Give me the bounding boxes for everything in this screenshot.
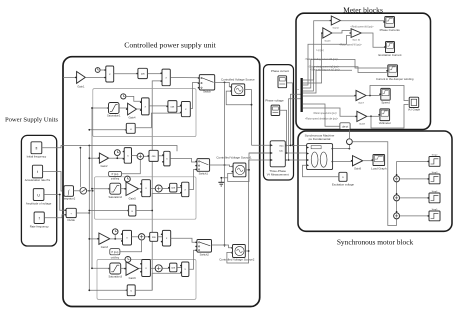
svg-text:Gain4: Gain4 — [333, 28, 340, 30]
wire gain3m to gain10 — [332, 31, 350, 34]
scope damper winding — [386, 65, 397, 77]
svg-text:<Field current ifd (pu)>: <Field current ifd (pu)> — [350, 26, 374, 29]
clock Clock3 — [125, 176, 131, 182]
junction — [224, 82, 226, 84]
gain Gain8 — [355, 111, 367, 121]
step scope Step4 — [427, 193, 440, 203]
block bias3 — [127, 285, 135, 296]
node junction circle — [347, 139, 353, 145]
scope Phase Currents — [383, 17, 394, 28]
wire phase C to VI — [249, 159, 271, 161]
wire cos4 to product9 — [158, 236, 163, 238]
block P pu — [109, 171, 122, 176]
subsystem frame Meter blocks — [296, 13, 431, 129]
svg-text:Amplitude of voltage: Amplitude of voltage — [26, 202, 52, 206]
wire to ground — [221, 177, 227, 179]
wire frequency bus — [89, 146, 177, 152]
wire phase A to VI — [252, 144, 271, 146]
wire m up to node — [348, 145, 350, 149]
wire diamond out — [87, 190, 94, 192]
junction — [88, 210, 90, 212]
svg-text:Step2: Step2 — [432, 153, 438, 156]
wire step chain vertical — [396, 161, 398, 225]
wire node up to dw-wt — [348, 129, 350, 138]
wire U amplitude — [44, 195, 66, 211]
wire f to block — [44, 215, 66, 218]
wire bus to gain2 — [89, 157, 99, 159]
svg-text:Step5: Step5 — [432, 208, 438, 211]
clock Clock4 — [112, 229, 118, 235]
svg-text:<Rotor speed deviation dw (pu): <Rotor speed deviation dw (pu)> — [305, 118, 339, 121]
svg-text:Switch1: Switch1 — [199, 171, 209, 175]
wire VI to machine 2 — [285, 152, 306, 154]
wire gain9 to load graph — [363, 160, 373, 162]
sum Add3 — [155, 265, 162, 272]
wire cos to product1 — [147, 73, 162, 75]
svg-text:Switch2: Switch2 — [200, 252, 210, 256]
wire product2 to cos1 — [149, 105, 168, 107]
wire demux to damper scope b — [303, 67, 387, 91]
wire clock4 stem — [114, 234, 116, 239]
wire switch2 to cvs2 — [212, 245, 233, 248]
svg-text:Phase Currents: Phase Currents — [380, 28, 401, 32]
wire Ppu1 to sum2 — [120, 240, 142, 252]
svg-text:Gain4: Gain4 — [128, 116, 136, 120]
wire gain2 to product4 — [109, 157, 125, 159]
clock Clock — [95, 68, 100, 73]
wire switch to cvs — [215, 82, 232, 86]
junction — [224, 164, 226, 166]
wire demux to dw-wt block — [303, 104, 340, 126]
svg-text:Current in the damper winding: Current in the damper winding — [376, 77, 414, 81]
svg-text:Load Graph: Load Graph — [371, 166, 387, 170]
wire fi output — [42, 146, 90, 148]
svg-text:Acceleration rate ff/s: Acceleration rate ff/s — [25, 178, 51, 182]
wire bus to saturation1 — [92, 107, 109, 109]
wire clock1 to product2 — [126, 96, 142, 101]
junction — [91, 107, 93, 109]
wire sum2 to cos4 — [145, 236, 150, 238]
svg-text:Saturation1: Saturation1 — [107, 114, 121, 118]
sum Add1 — [155, 185, 162, 192]
wire VI to machine 3 — [285, 159, 306, 161]
wire integrator to diamond — [74, 190, 81, 192]
wave block cos4 — [148, 232, 158, 241]
wire divide out — [76, 212, 89, 214]
product Product — [104, 66, 114, 82]
wire saturation1 to gain — [119, 107, 128, 109]
wire cvs2 output up — [245, 160, 248, 251]
wire Ppu to sum — [122, 160, 141, 174]
gain Gain4 — [126, 103, 137, 115]
svg-text:Integrator2: Integrator2 — [62, 196, 76, 200]
svg-text:Controlled Voltage Source2: Controlled Voltage Source2 — [219, 258, 255, 262]
product Product1 — [160, 69, 170, 86]
svg-text:Rate frequency: Rate frequency — [30, 225, 50, 229]
block fi initial frequency — [31, 142, 42, 154]
product Product2 — [140, 98, 149, 115]
wire gain4 to product2 — [137, 108, 142, 110]
wire cvs return loop 3 — [227, 251, 249, 263]
junction — [288, 159, 290, 161]
wire cos2 to product5 — [158, 155, 164, 157]
controlled voltage source CVS1 — [232, 163, 246, 177]
junction — [88, 145, 90, 147]
wire bus to bias2 — [89, 210, 128, 212]
junction — [114, 238, 116, 240]
svg-text:<Stator windg current iq2 (pu: <Stator windg current iq2 (pu)> — [308, 65, 340, 68]
scope Speed — [379, 88, 390, 100]
svg-text:<Rotor speed wm (pu)>: <Rotor speed wm (pu)> — [313, 112, 338, 115]
junction — [92, 190, 94, 192]
junction — [88, 289, 90, 291]
scope Load Graph — [371, 155, 384, 166]
block t acceleration rate — [32, 165, 42, 178]
controlled voltage source CVS — [230, 84, 245, 96]
wire drop to diamond — [79, 148, 81, 188]
junction — [396, 174, 398, 176]
junction — [248, 169, 250, 171]
svg-text:∫: ∫ — [67, 189, 70, 196]
wire demux to gain3m — [303, 33, 323, 83]
svg-text:Gain3: Gain3 — [324, 40, 331, 42]
wire demux stub iq2 — [303, 70, 352, 93]
gain Gain 10 — [349, 29, 361, 38]
scope Voltmeter — [378, 109, 389, 121]
saturation Saturation1 — [107, 103, 119, 114]
inner frame group2 — [95, 177, 197, 219]
switch Switch2 — [195, 240, 211, 253]
wire to vti graph b — [371, 105, 408, 129]
svg-text:fi: fi — [35, 147, 37, 151]
svg-text:Phase voltage: Phase voltage — [265, 99, 284, 103]
wire cos1 to product3 — [177, 105, 182, 107]
wire gain5 to product6 — [139, 188, 142, 190]
svg-text:Speed: Speed — [381, 101, 390, 105]
ground — [218, 178, 224, 186]
svg-text:V-I Measurement: V-I Measurement — [267, 172, 289, 176]
svg-text:Initial frequency: Initial frequency — [27, 155, 47, 159]
svg-text:Gain2: Gain2 — [100, 164, 108, 168]
svg-text:Gain 10: Gain 10 — [352, 40, 360, 42]
wire voltage bus up to demux — [289, 99, 301, 160]
wire gain4m to phase currents — [340, 20, 384, 22]
gain Gain7 — [354, 90, 366, 100]
inner frame group1 — [93, 89, 196, 137]
junction — [91, 267, 93, 269]
wire bus to saturation2 — [92, 188, 110, 190]
wire cvs return loop 2 — [228, 170, 249, 182]
wire bias3 feedback — [135, 273, 181, 290]
wire chain to step scope 1 — [397, 160, 429, 162]
block rate limiter — [66, 208, 76, 217]
gain Gain6 — [124, 262, 138, 276]
svg-text:<Stator winding current id2 (: <Stator winding current id2 (pu)> — [305, 58, 339, 61]
junction — [91, 188, 93, 190]
junction — [59, 194, 61, 196]
svg-text:Voltmeter: Voltmeter — [379, 121, 391, 125]
svg-text:Power Supply Units: Power Supply Units — [5, 117, 59, 124]
goto block Phase voltage — [271, 105, 280, 115]
wire neutral bus — [224, 82, 226, 247]
wire bus to gain3 — [89, 238, 99, 240]
junction — [396, 211, 398, 213]
gain Gain9 — [351, 156, 363, 166]
saturation Saturation2 — [108, 183, 121, 194]
wire phase voltage tap — [280, 110, 287, 153]
wire demux to gain4m — [303, 21, 330, 80]
clock Clock2 — [114, 150, 120, 156]
junction — [88, 190, 90, 192]
svg-text:I q (pu): I q (pu) — [316, 50, 324, 52]
wire cvs output down — [245, 90, 252, 146]
wire product8 to sum2 — [132, 236, 139, 238]
junction — [251, 104, 253, 106]
block bias2 — [129, 205, 136, 216]
wire phase current tap — [287, 83, 293, 145]
block U amplitude — [33, 189, 44, 201]
svg-text:P (pu): P (pu) — [112, 251, 119, 254]
block Synchronous Machine — [307, 144, 334, 170]
wire bias1 feedback — [135, 113, 181, 128]
port — [65, 209, 67, 211]
port — [125, 129, 127, 131]
block bias1 — [126, 123, 135, 133]
svg-text:U: U — [37, 193, 40, 197]
svg-text:Gain1: Gain1 — [77, 84, 85, 88]
svg-text:Gain6: Gain6 — [129, 276, 137, 280]
svg-text:unit/freq: unit/freq — [111, 256, 120, 259]
product Product10 — [140, 260, 150, 277]
wire excitation to machine — [303, 165, 339, 177]
wire product4 to sum — [132, 154, 138, 156]
node chain circle 1 — [394, 176, 400, 182]
gain Gain3m — [321, 28, 332, 38]
svg-text:Gain5: Gain5 — [129, 196, 137, 200]
block f rate frequency — [34, 212, 44, 224]
block Integrator2 — [62, 186, 73, 197]
wire chain to step scope 3 — [400, 197, 429, 199]
wire gain6 to product10 — [139, 267, 142, 269]
wave block cos3 — [168, 183, 177, 192]
sum Add — [137, 153, 143, 159]
junction — [290, 145, 292, 147]
wire chain to step scope 2 — [400, 178, 429, 180]
wave block cos5 — [168, 263, 177, 272]
subsystem frame measurement unit — [264, 65, 294, 180]
junction — [88, 238, 90, 240]
junction — [370, 115, 372, 117]
wire switch1 to cvs1 — [210, 165, 234, 167]
junction — [286, 152, 288, 154]
port — [65, 214, 67, 216]
switch Switch1 — [195, 159, 209, 172]
step scope Step5 — [427, 211, 440, 221]
block Excitation voltage — [339, 172, 347, 181]
svg-text:Saturation3: Saturation3 — [108, 275, 122, 279]
wire bus to bias3 — [89, 289, 127, 291]
wire product3 to switch in2 — [190, 83, 199, 109]
product Product9 — [161, 230, 171, 246]
wire to vti graph a — [370, 86, 408, 101]
junction — [396, 193, 398, 195]
wire product to wave — [114, 73, 138, 75]
block dw to wt — [340, 123, 350, 130]
wire saturation3 to gain6 — [121, 267, 126, 269]
inner frame group3 — [97, 260, 196, 300]
product Product6 — [140, 180, 150, 197]
wire cos5 to product11 — [177, 266, 182, 268]
svg-text:Phase current: Phase current — [271, 69, 289, 73]
svg-text:Excitation voltage: Excitation voltage — [332, 182, 354, 186]
wire cvs1 output — [246, 153, 270, 170]
wire chain to step scope 4 — [400, 215, 429, 217]
junction — [292, 144, 294, 146]
svg-text:Synchronous motor block: Synchronous motor block — [337, 238, 414, 247]
wire product9 to switch2 — [171, 238, 197, 242]
wire saturation2 to gain5 — [121, 188, 126, 190]
junction — [88, 157, 90, 159]
wire phase B to VI — [249, 152, 270, 154]
junction — [248, 250, 250, 252]
gain Gain1 — [75, 72, 85, 84]
svg-text:Controlled Voltage Source1: Controlled Voltage Source1 — [216, 155, 252, 159]
wire demux to damper scope a — [303, 60, 387, 89]
scope Excitation Current — [384, 42, 395, 53]
gain Gain4m — [330, 16, 341, 25]
product Product11 — [180, 262, 189, 277]
block Vt I Graph — [409, 97, 419, 107]
step scope Step3 — [427, 174, 440, 184]
wire t to integrator — [43, 172, 64, 192]
wire input phase A — [63, 76, 77, 78]
port — [127, 210, 129, 212]
svg-text:unit/freq: unit/freq — [111, 178, 120, 181]
svg-text:pu Fundamental: pu Fundamental — [309, 137, 331, 141]
wire cvs return loop 1 — [226, 91, 251, 105]
wire VI to machine 1 — [285, 144, 306, 146]
svg-text:Vt.I Graph: Vt.I Graph — [408, 108, 421, 112]
wire demux to gain10 — [303, 36, 351, 86]
svg-text:Step4: Step4 — [432, 190, 438, 193]
wire bus to saturation3 — [92, 267, 110, 269]
wave block cos — [136, 68, 147, 78]
svg-text:<Rotor speed W (pu)>: <Rotor speed W (pu)> — [339, 43, 362, 46]
svg-text:Gain3: Gain3 — [101, 245, 109, 249]
subsystem frame Power Supply Units — [21, 135, 56, 246]
wire clock2 stem — [116, 156, 118, 159]
wire vertical bus C — [152, 81, 162, 290]
svg-text:Step3: Step3 — [432, 171, 438, 174]
wire gain10 to excitation current — [361, 33, 385, 47]
gain Gain2 — [98, 153, 109, 163]
wave block cos2 — [147, 150, 158, 161]
wire product10 to sum3 — [150, 267, 155, 269]
wire clock to product — [100, 69, 106, 71]
svg-text:Saturation2: Saturation2 — [108, 195, 122, 199]
block P pu 1 — [110, 249, 120, 255]
product Product3 — [180, 102, 190, 117]
wire bias2 feedback — [136, 194, 182, 211]
junction — [88, 212, 90, 214]
block Three-Phase V-I Measurement — [270, 141, 287, 167]
wire node to step chain — [352, 142, 396, 226]
junction — [80, 147, 82, 149]
goto block Phase current — [278, 76, 287, 88]
gain Gain5 — [124, 182, 138, 196]
subsystem frame Synchronous motor block — [298, 131, 452, 231]
junction — [369, 95, 371, 97]
wire product11 to switch2 in3 — [189, 250, 197, 269]
node chain circle 2 — [394, 195, 400, 201]
svg-text:Gain7: Gain7 — [358, 102, 365, 104]
switch Switch — [198, 75, 215, 90]
junction — [224, 244, 226, 246]
port — [126, 290, 128, 292]
step scope Step2 — [427, 157, 440, 167]
manual switch — [80, 188, 87, 195]
svg-text:Gain9: Gain9 — [354, 166, 362, 170]
wire demux to gain7 — [303, 95, 355, 97]
controlled voltage source CVS2 — [231, 245, 245, 258]
wire demux to gain8 — [303, 108, 356, 116]
wire product1 to switch — [170, 77, 199, 79]
wire sum1 to cos3 — [162, 188, 169, 190]
product Product7 — [180, 182, 189, 197]
wire product6 to sum1 — [150, 188, 155, 190]
node chain circle 3 — [394, 213, 400, 219]
wire cos3 to product7 — [177, 187, 182, 189]
wire gain7 to speed scope — [366, 95, 380, 97]
wire product5 to switch1 — [170, 158, 197, 162]
wire gain3 to product8 — [110, 238, 123, 240]
sum Add2 — [138, 234, 144, 240]
wire bus to bias1 — [89, 129, 126, 131]
junction — [349, 148, 351, 150]
product Product4 — [123, 148, 132, 164]
svg-text:Gain8: Gain8 — [359, 124, 366, 126]
clock Clock5 — [125, 257, 131, 263]
wire product7 to switch1 in3 — [189, 170, 197, 190]
svg-text:Divide: Divide — [67, 218, 75, 222]
clock Clock1 — [121, 94, 126, 99]
wire machine to gain9 — [333, 161, 353, 163]
svg-text:Controlled Voltage Source: Controlled Voltage Source — [221, 77, 255, 81]
svg-text:Switch: Switch — [203, 90, 211, 94]
demux bar — [301, 78, 303, 112]
junction — [151, 210, 153, 212]
svg-text:Controlled power supply unit: Controlled power supply unit — [124, 41, 216, 50]
wire sum to cos2 — [144, 155, 150, 157]
gain Gain3 — [97, 233, 110, 244]
wire machine m out — [333, 148, 350, 150]
svg-text:dw wt: dw wt — [342, 126, 348, 129]
product Product5 — [162, 151, 170, 166]
svg-text:Excitation Current: Excitation Current — [379, 53, 402, 57]
junction — [220, 177, 222, 179]
wire machine bus up to demux — [291, 94, 301, 145]
svg-text:m: m — [297, 89, 299, 91]
product Product8 — [121, 230, 132, 245]
wire vertical bus B — [91, 108, 93, 268]
svg-text:P (pu): P (pu) — [112, 173, 119, 176]
wire gain8 to voltmeter — [367, 115, 379, 117]
wire gain1 to product — [85, 76, 106, 78]
subsystem frame Controlled power supply unit — [63, 57, 260, 307]
wave block cos1 — [166, 101, 177, 113]
junction — [88, 129, 90, 131]
saturation Saturation3 — [108, 263, 121, 274]
